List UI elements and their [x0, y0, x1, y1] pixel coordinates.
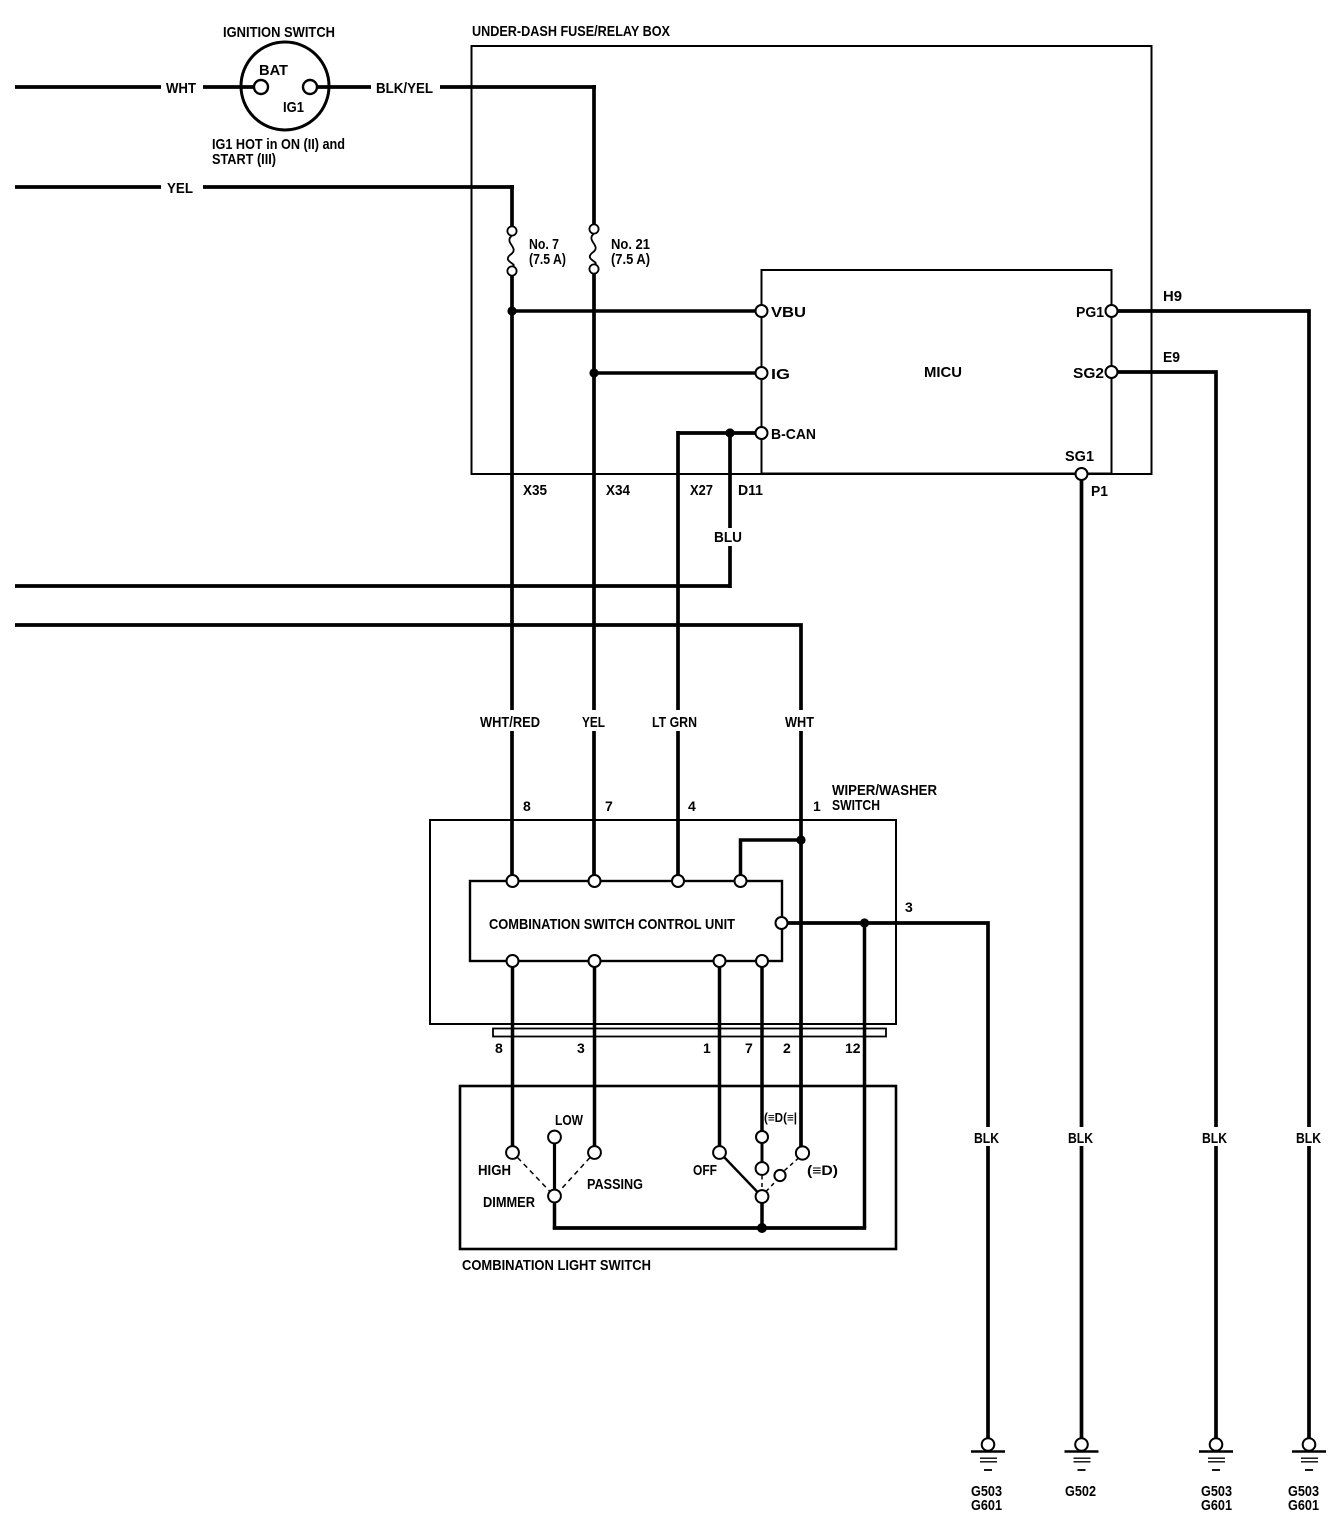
contact parking [796, 1146, 809, 1159]
svg-text:BLK: BLK [974, 1130, 999, 1147]
svg-text:YEL: YEL [167, 180, 193, 197]
terminal top 7 [589, 875, 601, 887]
svg-text:G601: G601 [1288, 1497, 1319, 1514]
wire fuse No.21 to IG node [592, 273, 596, 375]
ground G503/G601 (wire 3) [982, 1438, 995, 1451]
dashed small mid to parking [785, 1159, 799, 1171]
junction node pin12 [860, 918, 869, 927]
wire fuse No.7 to VBU node [510, 275, 514, 313]
ground G503/G601 (wire H9) [1303, 1438, 1316, 1451]
wire IG from fuse No.21 [592, 371, 756, 375]
svg-text:P1: P1 [1091, 483, 1108, 500]
svg-text:BAT: BAT [259, 62, 288, 79]
wire pin1 to light switch [718, 967, 722, 1146]
contact HIGH [506, 1146, 519, 1159]
junction node pin1/WHT [796, 835, 805, 844]
svg-text:BLK: BLK [1202, 1130, 1227, 1147]
contact headlight A [756, 1131, 768, 1143]
label WHT/RED [476, 710, 544, 730]
terminal bottom 7 [756, 955, 768, 967]
svg-text:BLK/YEL: BLK/YEL [376, 80, 433, 97]
contact common [756, 1190, 769, 1203]
wire A to B [761, 1142, 764, 1163]
ignition switch terminal IG1 [303, 80, 317, 94]
svg-text:START (III): START (III) [212, 151, 276, 168]
wiper/washer switch box [430, 820, 896, 1024]
terminal SG1 [1076, 468, 1088, 480]
svg-text:BLU: BLU [714, 529, 742, 546]
svg-text:X35: X35 [523, 482, 547, 499]
contact PASSING [588, 1146, 601, 1159]
wire BLK E9 label [1201, 1127, 1229, 1146]
wire X27 vertical [676, 431, 680, 711]
svg-text:8: 8 [523, 798, 531, 814]
wire LOW to DIMMER [553, 1144, 556, 1190]
svg-text:VBU: VBU [771, 304, 806, 321]
wire common to bus [760, 1203, 764, 1230]
wire pin8 to light switch [511, 967, 515, 1146]
terminal PG1 [1106, 305, 1118, 317]
combination light switch box [460, 1086, 896, 1249]
svg-text:COMBINATION LIGHT SWITCH: COMBINATION LIGHT SWITCH [462, 1257, 651, 1274]
wire YEL left segment [15, 185, 161, 189]
label YEL [578, 710, 609, 730]
svg-text:D11: D11 [738, 482, 763, 499]
svg-text:SG1: SG1 [1065, 448, 1094, 465]
svg-text:MICU: MICU [924, 364, 962, 381]
dashed PASSING to DIMMER [560, 1158, 591, 1192]
junction node B-CAN/D11 [725, 428, 734, 437]
wire E9 from SG2 [1118, 372, 1217, 1438]
terminal top 1 [735, 875, 747, 887]
wire BLK/YEL segment to fuse box [440, 85, 596, 89]
terminal bottom 3 [589, 955, 601, 967]
wire BLK 3 vertical label [973, 1127, 1001, 1146]
svg-text:1: 1 [813, 798, 821, 814]
svg-text:1: 1 [703, 1040, 711, 1056]
svg-text:8: 8 [495, 1040, 503, 1056]
svg-text:PG1: PG1 [1076, 304, 1104, 321]
svg-text:G601: G601 [1201, 1497, 1232, 1514]
terminal right 3 [776, 917, 788, 929]
svg-text:7: 7 [745, 1040, 753, 1056]
wire WHT vertical to wiper switch [799, 731, 803, 1147]
svg-text:4: 4 [688, 798, 696, 814]
contact DIMMER common [548, 1190, 561, 1203]
svg-text:LT GRN: LT GRN [652, 714, 697, 731]
wire 3 to ground [788, 923, 988, 1438]
wire X35 vertical [510, 311, 514, 711]
terminal IG [756, 367, 768, 379]
terminal top 8 [507, 875, 519, 887]
terminal bottom 8 [507, 955, 519, 967]
ground G502 (wire P1) [1075, 1438, 1088, 1451]
svg-text:PASSING: PASSING [587, 1176, 643, 1193]
dashed common to small mid [766, 1181, 777, 1192]
wire BLK/YEL vertical to fuse No.21 [592, 85, 596, 225]
contact small mid [774, 1170, 785, 1181]
svg-text:LOW: LOW [555, 1112, 584, 1129]
svg-text:COMBINATION SWITCH CONTROL UNI: COMBINATION SWITCH CONTROL UNIT [489, 916, 735, 933]
label WHT [781, 710, 818, 730]
terminal bottom 1 [714, 955, 726, 967]
svg-text:X34: X34 [606, 482, 631, 499]
ground G503/G601 (wire E9) [1210, 1438, 1223, 1451]
contact OFF [713, 1146, 726, 1159]
wire WHT left segment [15, 85, 161, 89]
svg-text:IGNITION SWITCH: IGNITION SWITCH [223, 24, 335, 41]
wire YEL segment to fuse box [203, 185, 514, 189]
wire P1 from SG1 [1080, 480, 1084, 1438]
svg-text:WHT: WHT [166, 80, 196, 97]
connector strip [493, 1029, 886, 1037]
wire BLK P1 label [1067, 1127, 1095, 1146]
MICU box [762, 270, 1112, 474]
label LT GRN [648, 710, 701, 730]
svg-text:HIGH: HIGH [478, 1162, 511, 1179]
wire BLK/YEL segment from IG1 [317, 85, 371, 89]
wire WHT right segment [203, 85, 254, 89]
svg-text:(≡D(≡|: (≡D(≡| [764, 1110, 797, 1125]
svg-text:YEL: YEL [582, 714, 605, 731]
svg-text:G502: G502 [1065, 1483, 1096, 1500]
svg-text:7: 7 [605, 798, 613, 814]
svg-text:12: 12 [845, 1040, 861, 1056]
wire pin3 to light switch [593, 967, 597, 1146]
wire DIMMER to bus [553, 1203, 557, 1230]
svg-text:H9: H9 [1163, 288, 1182, 305]
wire YEL vertical to fuse No.7 [510, 185, 514, 227]
svg-text:IG: IG [771, 366, 790, 383]
terminal SG2 [1106, 366, 1118, 378]
svg-text:SG2: SG2 [1073, 365, 1104, 382]
switch blade OFF to common [724, 1157, 758, 1192]
svg-text:B-CAN: B-CAN [771, 426, 816, 443]
svg-text:(≡D): (≡D) [807, 1162, 838, 1178]
contact LOW [548, 1131, 561, 1144]
terminal B-CAN [756, 427, 768, 439]
svg-text:(7.5 A): (7.5 A) [611, 251, 650, 268]
fuse No.21 [589, 224, 598, 233]
wire branch to control unit [741, 840, 802, 876]
wire X34 vertical [592, 373, 596, 711]
svg-text:3: 3 [577, 1040, 585, 1056]
junction node bus [757, 1223, 767, 1233]
wire bus horizontal to pin 1 [15, 625, 801, 711]
terminal top 4 [672, 875, 684, 887]
fuse No.7 [507, 226, 516, 235]
svg-text:E9: E9 [1163, 349, 1180, 366]
svg-text:WHT/RED: WHT/RED [480, 714, 540, 731]
svg-text:2: 2 [783, 1040, 791, 1056]
terminal VBU [756, 305, 768, 317]
svg-text:BLK: BLK [1296, 1130, 1321, 1147]
wire pin12 vertical [863, 923, 867, 1228]
contact headlight B [756, 1162, 769, 1175]
svg-text:UNDER-DASH FUSE/RELAY BOX: UNDER-DASH FUSE/RELAY BOX [472, 23, 670, 40]
svg-text:3: 3 [905, 899, 913, 915]
combination switch control unit box [470, 881, 782, 961]
svg-text:X27: X27 [690, 482, 713, 499]
svg-text:BLK: BLK [1068, 1130, 1093, 1147]
wire VBU from fuse No.7 [510, 309, 756, 313]
svg-text:IG1: IG1 [283, 99, 304, 116]
wire D11 / BLU vertical [728, 433, 732, 528]
dashed HIGH to DIMMER [518, 1158, 550, 1192]
bus wire [553, 1226, 866, 1230]
wire BLK H9 label [1295, 1127, 1323, 1146]
under-dash fuse/relay box [472, 46, 1152, 474]
svg-text:SWITCH: SWITCH [832, 797, 880, 814]
ignition switch terminal BAT [254, 80, 268, 94]
junction node X35/VBU [507, 306, 516, 315]
wire H9 from PG1 [1118, 311, 1310, 1438]
svg-text:DIMMER: DIMMER [483, 1194, 535, 1211]
dashed B to common [761, 1176, 763, 1191]
svg-text:OFF: OFF [693, 1162, 717, 1179]
svg-text:WHT: WHT [785, 714, 814, 731]
wire B-CAN horizontal [677, 431, 756, 435]
svg-text:G601: G601 [971, 1497, 1002, 1514]
svg-text:(7.5 A): (7.5 A) [529, 251, 566, 268]
ignition switch body [241, 42, 329, 130]
junction node X34/IG [589, 368, 598, 377]
wire pin7 to light switch [760, 967, 764, 1131]
wire bus horizontal to D11 [15, 584, 730, 588]
